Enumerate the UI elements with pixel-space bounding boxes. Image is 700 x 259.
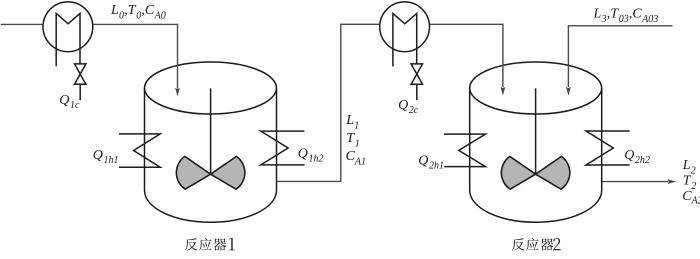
- svg-text:L: L: [593, 7, 602, 22]
- svg-text:L: L: [110, 3, 119, 18]
- heating coil Q2h2 (reactor R2 right): [586, 131, 630, 165]
- svg-text:A1: A1: [354, 156, 366, 167]
- svg-text:A0: A0: [154, 11, 166, 22]
- svg-text:2h1: 2h1: [429, 161, 444, 172]
- svg-text:Q: Q: [59, 93, 69, 108]
- wire: reactor R1 outlet riser to exchanger E2: [276, 24, 380, 181]
- svg-text:L: L: [345, 113, 354, 128]
- svg-text:A03: A03: [641, 14, 658, 25]
- svg-text:Q: Q: [298, 147, 308, 162]
- svg-text:1: 1: [354, 121, 359, 132]
- wire: drop line of feed L3 into reactor R2: [567, 25, 569, 87]
- heat exchanger E2 (motor circle with M): [380, 2, 430, 67]
- arrowhead: product outlet arrow: [667, 179, 676, 184]
- wire: fresh feed L3 into reactor R2: [568, 25, 672, 27]
- wire: E2 outlet to reactor R2 inlet: [430, 23, 503, 25]
- svg-text:Q: Q: [398, 98, 408, 113]
- svg-text:Q: Q: [624, 148, 634, 163]
- heating coil Q1h1 (reactor R1 left): [119, 134, 160, 167]
- caption 反应器2 (Reactor 2): [512, 238, 561, 251]
- svg-text:L: L: [682, 158, 691, 173]
- svg-text:,T: ,T: [124, 3, 137, 18]
- wire: reactor R2 product outlet: [602, 181, 668, 183]
- heating coil Q2h1 (reactor R2 left): [444, 134, 485, 167]
- caption 反应器1 (Reactor 1): [185, 238, 235, 251]
- reactor R1 vessel (反应器1): [145, 62, 277, 222]
- coolant valve V2: [411, 64, 422, 100]
- svg-text:2c: 2c: [409, 105, 419, 116]
- wire: fresh feed into exchanger E1: [1, 23, 44, 25]
- heat exchanger E1 (motor circle with M): [43, 2, 93, 67]
- svg-text:2h2: 2h2: [635, 155, 650, 166]
- svg-text:2: 2: [691, 181, 696, 192]
- arrowhead: feed into reactor R2 from E2: [501, 87, 506, 96]
- reactor R2 vessel (反应器2): [470, 62, 602, 222]
- wire: drop line into reactor R1: [177, 24, 179, 89]
- svg-text:1h1: 1h1: [104, 155, 119, 166]
- svg-text:1h2: 1h2: [309, 154, 324, 165]
- svg-text:,T: ,T: [607, 7, 620, 22]
- wire: E1 outlet to reactor R1 inlet: [93, 23, 178, 25]
- stirrer / impeller of reactor R1: [176, 88, 244, 189]
- svg-text:,C: ,C: [629, 7, 643, 22]
- arrowhead: feed into reactor R1: [175, 88, 180, 97]
- heating coil Q1h2 (reactor R1 right): [261, 131, 305, 165]
- svg-text:2: 2: [691, 165, 696, 176]
- wire: drop line into reactor R2 from E2: [502, 24, 504, 87]
- svg-text:Q: Q: [93, 148, 103, 163]
- arrowhead: feed L3 into reactor R2: [566, 87, 571, 96]
- svg-text:1c: 1c: [70, 100, 80, 111]
- svg-text:03: 03: [619, 14, 629, 25]
- coolant valve V1: [75, 64, 86, 100]
- svg-text:1: 1: [355, 139, 360, 150]
- svg-text:3: 3: [601, 14, 607, 25]
- svg-text:A2: A2: [691, 195, 700, 206]
- stirrer / impeller of reactor R2: [501, 88, 569, 189]
- svg-text:Q: Q: [418, 154, 428, 169]
- svg-text:,C: ,C: [141, 3, 155, 18]
